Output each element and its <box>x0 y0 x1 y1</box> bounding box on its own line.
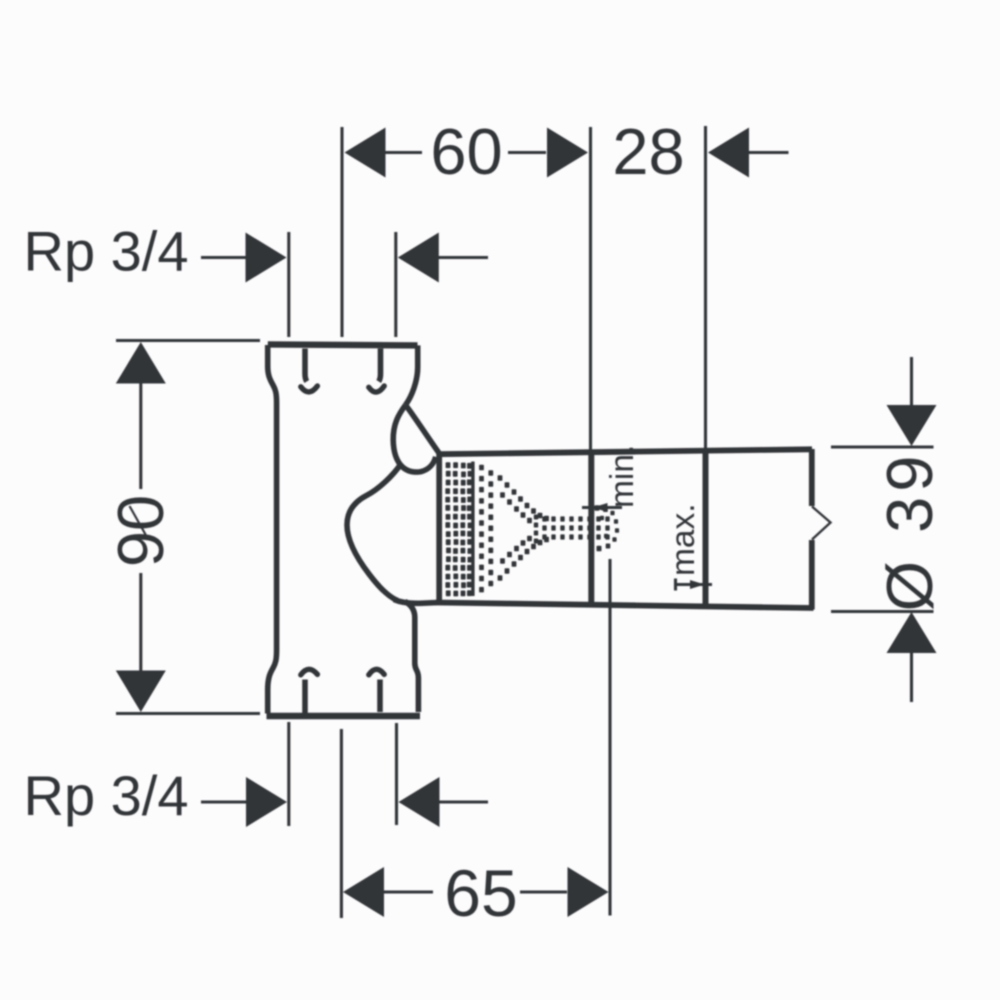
bottom hook 1 curl <box>301 669 318 675</box>
min plaster line (thick) <box>588 452 594 605</box>
dimension 60 tail left <box>385 151 422 154</box>
funnel upper-left concave edge <box>347 465 401 601</box>
bottom hook 2 curl <box>369 669 384 675</box>
dim 90 extension line top <box>116 339 260 342</box>
bottom hook 2 stem <box>377 680 383 713</box>
dim 28 arrowhead left <box>708 128 749 178</box>
Rp34 bottom arrowhead right <box>246 777 287 827</box>
dim 90 line upper segment <box>139 383 142 489</box>
bottom hook 1 stem <box>302 680 308 714</box>
top hook 1 stem <box>305 349 307 382</box>
Rp 3/4 bottom right arrow tail <box>439 800 488 803</box>
dim 60 arrowhead right <box>547 128 588 178</box>
extension line top dim right (x=705.5) <box>704 126 707 449</box>
dim 65 tail right <box>520 890 567 893</box>
dimension 28 arrow tail <box>748 151 789 154</box>
extension line Rp34 bottom left (x=288.8) <box>287 722 290 826</box>
cartridge right edge lower <box>809 540 815 610</box>
spindle chevron on right end cap <box>812 507 831 540</box>
Rp 3/4 top leader tail <box>201 256 246 259</box>
svg-text:60: 60 <box>430 115 502 188</box>
dim 65 arrowhead left <box>343 867 384 917</box>
svg-text:Rp 3/4: Rp 3/4 <box>24 220 189 283</box>
dim 65 tail left <box>384 890 433 893</box>
pipe left edge with waist <box>268 345 277 714</box>
Rp 3/4 top right arrow tail <box>438 256 488 259</box>
stipple horn spray <box>479 465 484 471</box>
svg-text:max.: max. <box>665 503 702 576</box>
top hook 1 curl <box>301 386 318 392</box>
Rp 3/4 bottom leader tail <box>201 800 246 803</box>
extension line Rp34 top right (x=395.8) <box>394 232 397 337</box>
dim 60 arrowhead left <box>345 128 386 178</box>
valve body outline (vertical Rp3/4 tee pipe) <box>268 344 418 345</box>
nose right edge to cartridge corner <box>406 405 439 453</box>
dim 65 extension line right (x=611.5 from cartridge) <box>608 559 611 916</box>
svg-text:Ø 39: Ø 39 <box>873 451 946 612</box>
extension line Rp34 top left (x=288.8) <box>287 232 290 337</box>
max leader line <box>676 583 713 586</box>
top hook 2 curl <box>369 386 384 392</box>
svg-text:min.: min. <box>604 445 641 508</box>
extension line top dim left (x=342) <box>340 127 343 337</box>
strainer screen line <box>471 462 474 597</box>
Rp34 top arrowhead right <box>246 233 287 283</box>
dim diam39 line above <box>910 357 913 406</box>
max arrowhead pointing right <box>690 580 705 589</box>
dim 90 line lower segment <box>139 573 142 671</box>
cartridge right edge upper <box>809 449 815 506</box>
stipple dense block <box>446 462 451 468</box>
extension line Rp34 bottom right (x=397.8) <box>395 723 398 825</box>
svg-text:65: 65 <box>444 856 517 930</box>
dim diam39 extension top <box>831 446 934 449</box>
dim 90 arrowhead up <box>116 342 166 384</box>
slash through 0 of 90 <box>130 506 148 538</box>
dimension 60 tail right <box>508 151 546 154</box>
funnel bottom edge merging to cartridge bottom <box>394 600 437 604</box>
teardrop left loop <box>393 405 436 472</box>
max leader end tick <box>674 579 677 591</box>
min arrowhead pointing left <box>593 503 608 512</box>
pipe bottom edge <box>267 713 421 719</box>
svg-text:28: 28 <box>612 115 684 188</box>
dim diam39 line below <box>910 652 913 702</box>
svg-text:90: 90 <box>104 495 177 567</box>
cartridge bottom edge <box>436 603 814 609</box>
svg-text:Rp 3/4: Rp 3/4 <box>24 764 189 827</box>
cartridge left edge <box>436 452 442 601</box>
pipe right edge below funnel with flange step <box>405 602 418 713</box>
Rp34 bottom arrowhead left <box>399 777 440 827</box>
max plaster line (thick) <box>703 449 709 606</box>
dim 90 extension line bottom <box>116 712 260 715</box>
dim diam39 arrowhead down <box>887 405 937 446</box>
dim 65 arrowhead right <box>568 867 609 917</box>
cartridge top edge <box>437 449 813 454</box>
min leader line <box>582 506 622 509</box>
top hook 2 stem <box>379 349 381 382</box>
dim diam39 extension bottom <box>831 610 934 613</box>
Rp34 top arrowhead left <box>398 233 439 283</box>
dim 65 extension line left (x=341.5 pipe axis) <box>340 729 343 918</box>
dim diam39 arrowhead up <box>887 612 937 653</box>
extension line top dim middle (x=590.5) <box>589 127 592 452</box>
dim 90 arrowhead down <box>116 671 166 713</box>
